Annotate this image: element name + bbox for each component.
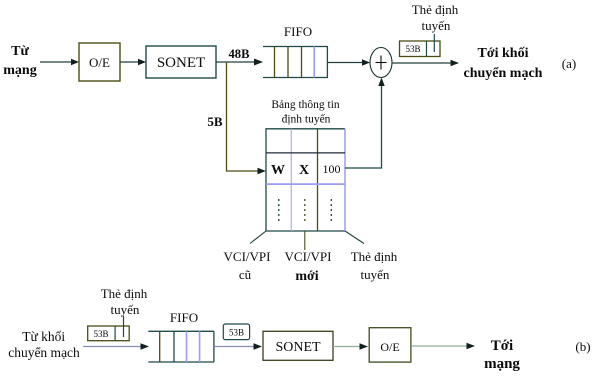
pointer line to "VCI/VPI moi" <box>304 231 306 250</box>
svg-text:53B: 53B <box>93 329 108 339</box>
label "Tu khoi chuyen mach" (b) <box>8 329 80 360</box>
FIFO queue symbol (b) <box>148 331 214 362</box>
label "Toi khoi chuyen mach" <box>464 46 543 81</box>
label "Bang thong tin dinh tuyen" <box>271 99 340 126</box>
svg-text:Thẻ định: Thẻ định <box>351 249 398 264</box>
svg-text:chuyển mạch: chuyển mạch <box>8 345 80 360</box>
svg-text:48B: 48B <box>229 47 250 61</box>
svg-text:Tới khối: Tới khối <box>478 46 529 61</box>
svg-text:định tuyến: định tuyến <box>282 113 331 126</box>
svg-text:O/E: O/E <box>89 55 110 70</box>
svg-text:100: 100 <box>323 162 341 176</box>
tag box 53B (b middle) <box>223 324 249 340</box>
svg-text:mạng: mạng <box>484 356 520 372</box>
svg-text:SONET: SONET <box>275 340 321 355</box>
svg-text:tuyến: tuyến <box>111 302 140 317</box>
routing tag cell box 53B (a) <box>400 41 441 57</box>
box O/E (b) <box>369 328 411 362</box>
svg-text:Thẻ định: Thẻ định <box>101 286 148 301</box>
pointer line label to 53B box (b) <box>123 316 125 337</box>
svg-text:W: W <box>271 163 285 178</box>
svg-text:(a): (a) <box>562 56 576 71</box>
svg-text:mới: mới <box>295 269 318 284</box>
wire table output up to adder <box>345 78 385 169</box>
routing tag cell box 53B (b input) <box>88 326 130 341</box>
label "Tu mang" input (a) <box>3 44 36 78</box>
box SONET (a) <box>146 46 216 78</box>
svg-text:FIFO: FIFO <box>170 310 198 325</box>
svg-text:cũ: cũ <box>239 267 252 282</box>
adder circle (+) <box>370 48 392 78</box>
svg-text:53B: 53B <box>229 328 244 338</box>
wire FIFO to SONET (b) <box>214 343 262 350</box>
pointer diagonal to "The dinh tuyen" (table) <box>345 231 364 244</box>
wire O/E to SONET <box>120 59 146 65</box>
label "The dinh tuyen" (b) <box>101 286 148 317</box>
svg-text:FIFO: FIFO <box>284 24 312 39</box>
label "The dinh tuyen" (below table) <box>351 249 398 282</box>
svg-text:mạng: mạng <box>3 63 36 78</box>
svg-text:O/E: O/E <box>380 340 399 354</box>
box SONET (b) <box>263 331 333 360</box>
svg-text:53B: 53B <box>405 44 420 54</box>
wire O/E to "Toi mang" (b) <box>411 343 475 350</box>
routing information table <box>266 129 345 231</box>
wire "Tu khoi" to FIFO (b) <box>83 343 149 350</box>
svg-text:tuyến: tuyến <box>422 18 451 33</box>
svg-text:VCI/VPI: VCI/VPI <box>285 249 332 264</box>
wire from "Tu mang" to O/E <box>40 59 79 65</box>
svg-text:Từ: Từ <box>11 44 29 59</box>
svg-text:5B: 5B <box>207 114 223 129</box>
svg-text:tuyến: tuyến <box>361 267 390 282</box>
FIFO queue symbol (a) <box>263 47 328 78</box>
svg-text:Thẻ định: Thẻ định <box>412 2 459 17</box>
svg-text:X: X <box>299 163 309 178</box>
svg-text:Tới: Tới <box>491 338 513 354</box>
svg-text:VCI/VPI: VCI/VPI <box>224 249 271 264</box>
pointer line label to 53B box (a) <box>433 34 435 52</box>
svg-text:chuyển mạch: chuyển mạch <box>464 66 543 81</box>
wire SONET to O/E (b) <box>333 343 368 350</box>
wire adder to switch-block output (a) <box>392 60 459 67</box>
label "Toi mang" <box>484 338 520 372</box>
svg-text:Bảng thông tin: Bảng thông tin <box>271 99 340 111</box>
svg-text:SONET: SONET <box>157 55 205 71</box>
wire SONET to FIFO <box>216 59 263 66</box>
label "The dinh tuyen" (a) <box>412 2 459 33</box>
pointer diagonal to "VCI/VPI cu" <box>250 231 266 244</box>
dotted continuation marks in table <box>279 199 332 221</box>
svg-text:(b): (b) <box>575 339 590 354</box>
label "VCI/VPI moi" <box>285 249 332 284</box>
wire 5B tap from SONET output down to routing table <box>227 62 267 174</box>
wire FIFO to adder <box>328 59 370 65</box>
label "VCI/VPI cu" <box>224 249 271 282</box>
box O/E (a) <box>79 43 120 81</box>
svg-text:Từ khối: Từ khối <box>22 329 65 344</box>
